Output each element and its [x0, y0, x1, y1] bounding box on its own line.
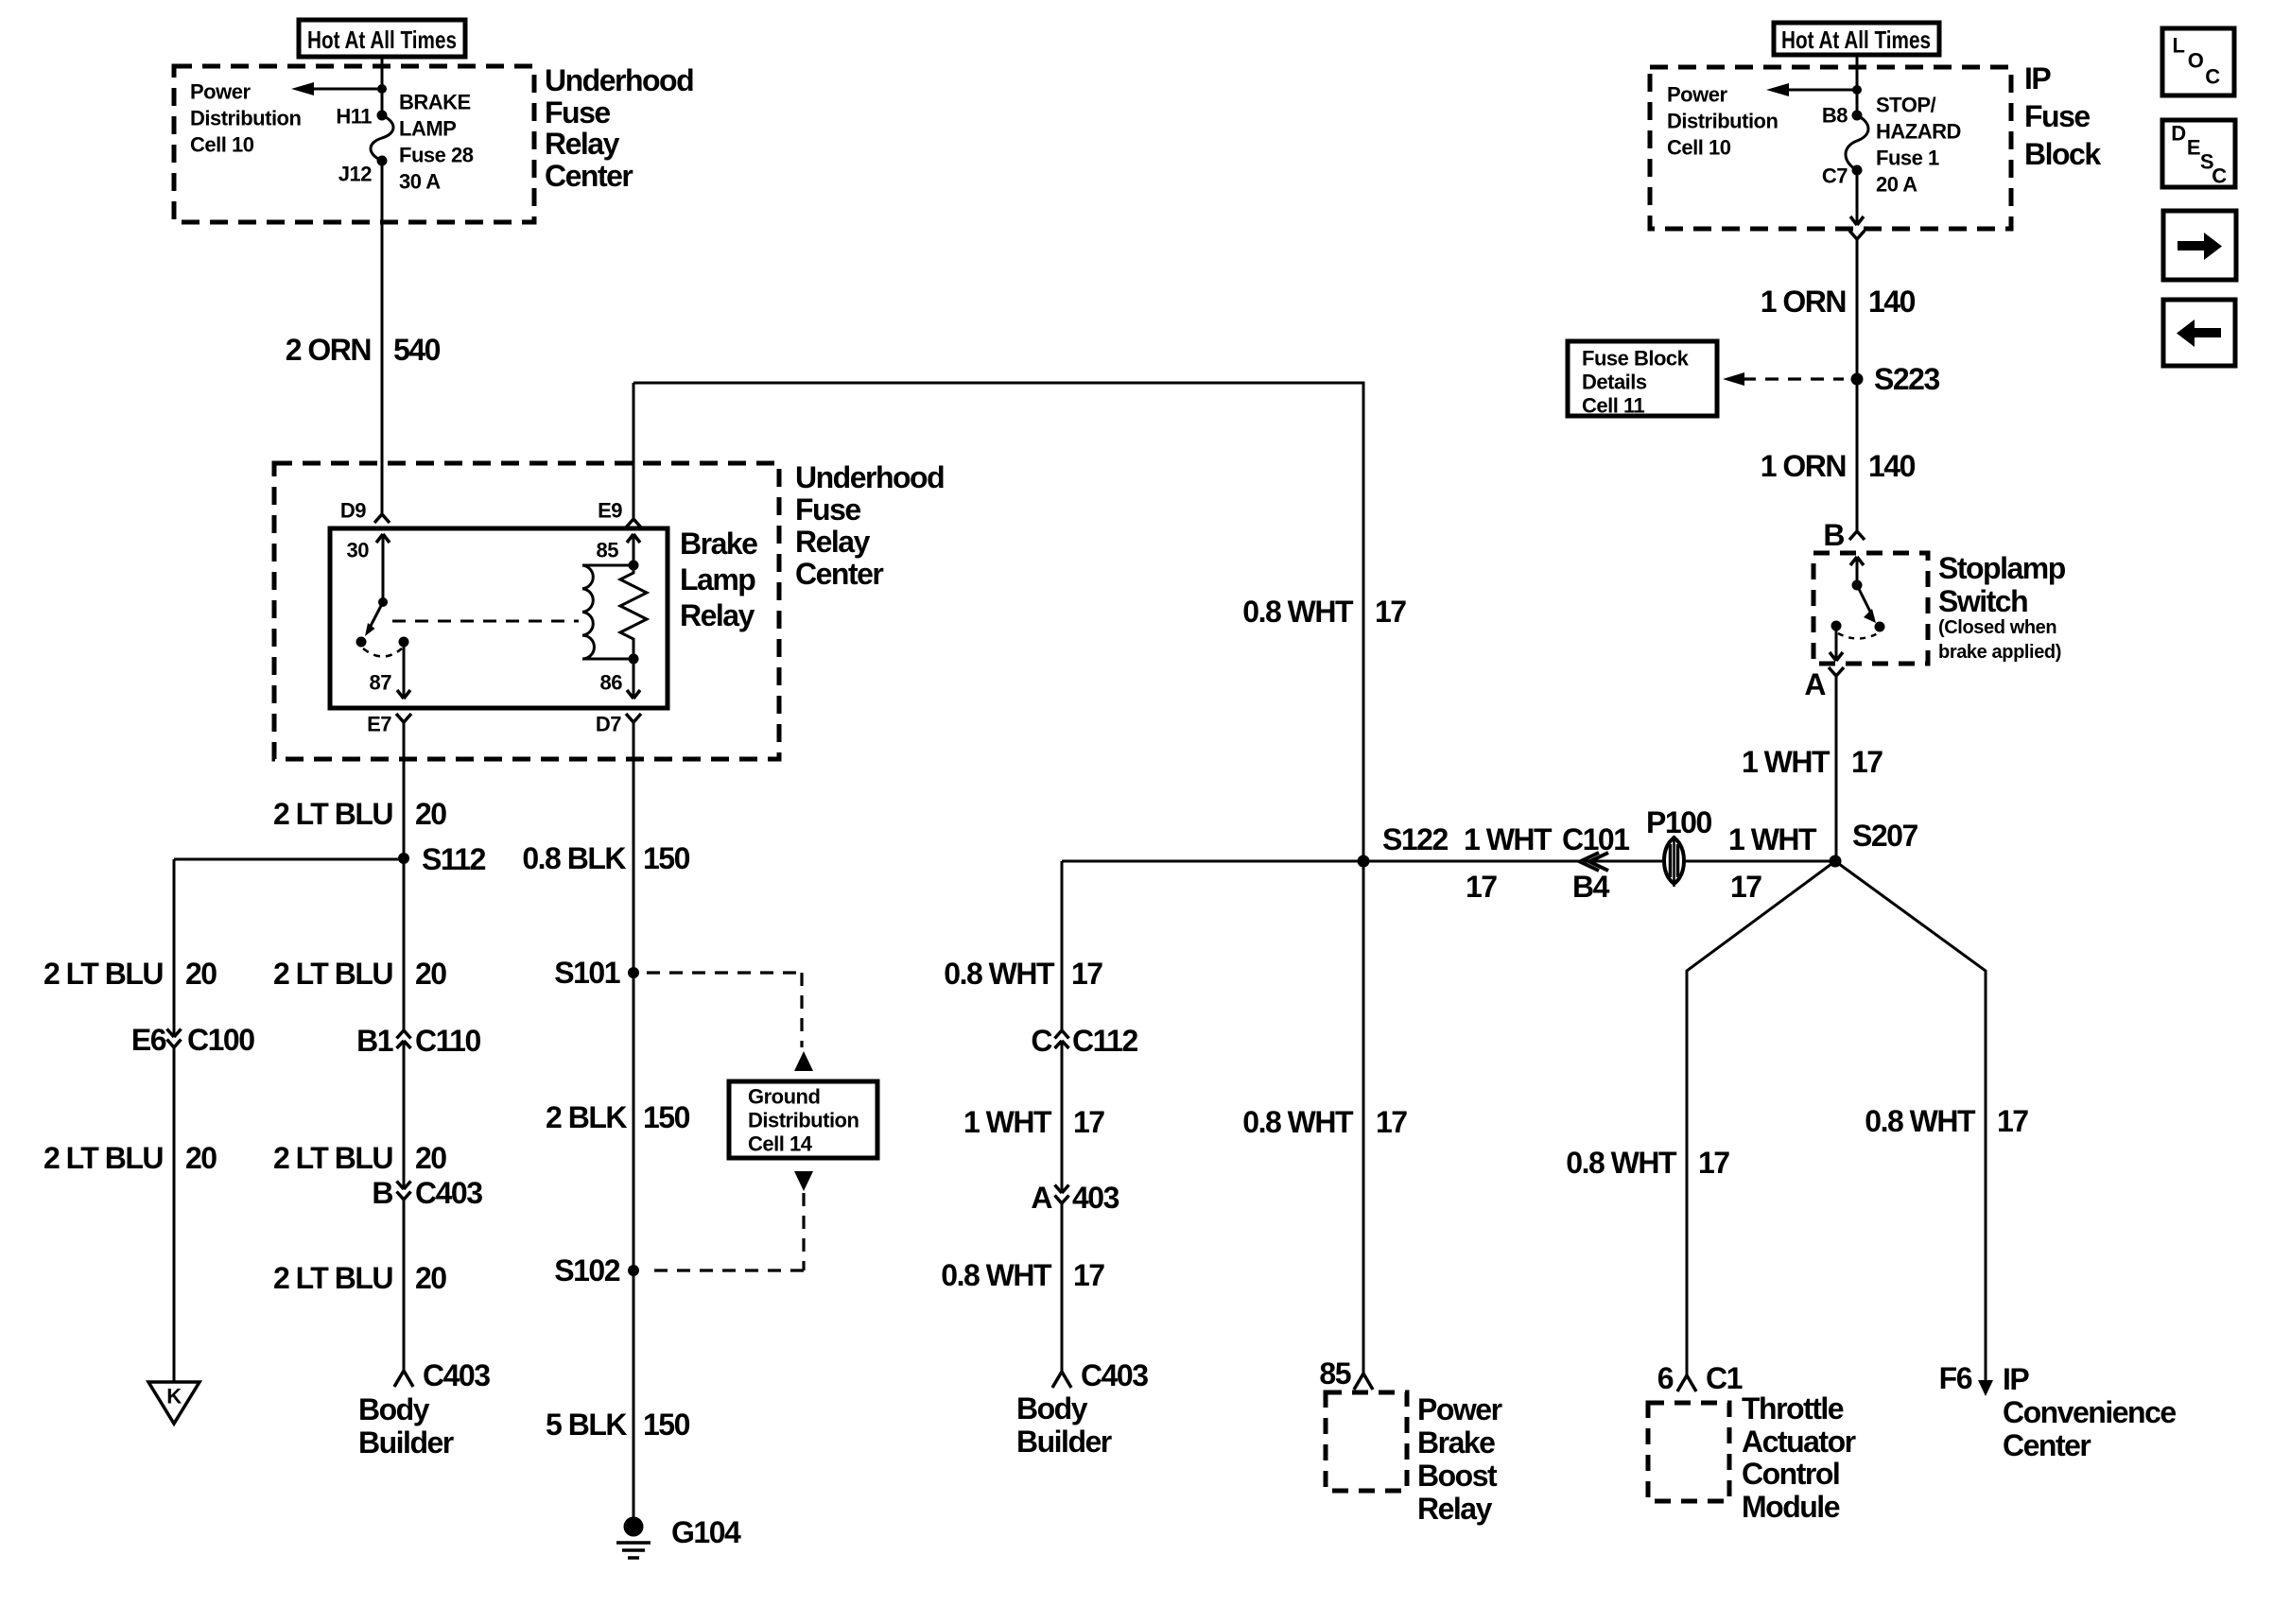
svg-text:17: 17	[1073, 1258, 1104, 1292]
svg-text:Power: Power	[1417, 1392, 1502, 1426]
svg-text:Stoplamp: Stoplamp	[1938, 551, 2066, 585]
svg-text:540: 540	[393, 333, 441, 367]
svg-text:20: 20	[185, 957, 217, 991]
svg-text:Boost: Boost	[1417, 1459, 1498, 1493]
svg-text:B8: B8	[1822, 104, 1848, 128]
svg-text:2 BLK: 2 BLK	[546, 1100, 627, 1134]
svg-text:403: 403	[1072, 1181, 1119, 1215]
svg-text:IP: IP	[2024, 61, 2051, 95]
svg-text:2 LT BLU: 2 LT BLU	[43, 1141, 163, 1175]
svg-text:E: E	[2187, 136, 2200, 160]
svg-text:Lamp: Lamp	[680, 562, 755, 596]
svg-text:Control: Control	[1742, 1457, 1839, 1491]
svg-text:Fuse 28: Fuse 28	[399, 144, 474, 167]
svg-text:2 LT BLU: 2 LT BLU	[273, 957, 392, 991]
svg-text:L: L	[2173, 34, 2185, 58]
svg-text:17: 17	[1997, 1104, 2028, 1138]
svg-text:F6: F6	[1939, 1361, 1972, 1395]
svg-text:H11: H11	[336, 105, 372, 129]
svg-text:C403: C403	[423, 1358, 490, 1392]
svg-text:D9: D9	[340, 499, 366, 523]
svg-text:17: 17	[1073, 1105, 1104, 1139]
svg-text:0.8 WHT: 0.8 WHT	[1242, 1105, 1354, 1139]
svg-text:Fuse: Fuse	[2024, 99, 2090, 133]
svg-text:30: 30	[347, 539, 370, 562]
svg-text:Cell 10: Cell 10	[1667, 136, 1731, 160]
svg-text:B: B	[372, 1176, 392, 1210]
svg-text:Builder: Builder	[358, 1425, 454, 1460]
svg-text:BRAKE: BRAKE	[399, 91, 471, 114]
svg-text:150: 150	[643, 1408, 690, 1442]
svg-text:Center: Center	[795, 557, 883, 591]
svg-text:C: C	[2212, 164, 2227, 188]
svg-text:Cell 10: Cell 10	[190, 133, 254, 157]
svg-text:HAZARD: HAZARD	[1876, 120, 1961, 144]
svg-text:1 ORN: 1 ORN	[1761, 449, 1846, 483]
svg-text:20: 20	[415, 957, 446, 991]
svg-text:S122: S122	[1382, 822, 1448, 856]
svg-text:Distribution: Distribution	[1667, 110, 1778, 133]
svg-text:2 LT BLU: 2 LT BLU	[273, 1141, 392, 1175]
svg-text:150: 150	[643, 841, 690, 875]
svg-text:1 ORN: 1 ORN	[1761, 285, 1846, 319]
svg-text:0.8 WHT: 0.8 WHT	[1242, 595, 1354, 629]
svg-text:Module: Module	[1742, 1490, 1840, 1524]
svg-text:C100: C100	[187, 1023, 254, 1057]
svg-text:A: A	[1031, 1181, 1052, 1215]
svg-text:17: 17	[1851, 745, 1883, 779]
svg-text:Builder: Builder	[1016, 1425, 1112, 1459]
svg-text:30 A: 30 A	[399, 170, 441, 194]
svg-text:J12: J12	[338, 163, 372, 186]
svg-text:0.8 WHT: 0.8 WHT	[941, 1258, 1052, 1292]
svg-text:A: A	[1804, 667, 1826, 701]
svg-text:140: 140	[1868, 285, 1916, 319]
svg-text:Distribution: Distribution	[748, 1109, 859, 1132]
svg-text:Cell 11: Cell 11	[1582, 394, 1644, 418]
svg-text:B4: B4	[1572, 870, 1610, 904]
svg-text:D: D	[2171, 122, 2185, 146]
svg-text:17: 17	[1375, 595, 1406, 629]
svg-text:STOP/: STOP/	[1876, 94, 1936, 117]
svg-text:Cell 14: Cell 14	[748, 1132, 813, 1156]
svg-text:Relay: Relay	[795, 525, 871, 559]
svg-text:brake applied): brake applied)	[1938, 642, 2061, 663]
svg-text:20 A: 20 A	[1876, 173, 1917, 197]
svg-text:Power: Power	[190, 80, 251, 104]
svg-text:Body: Body	[358, 1392, 430, 1426]
svg-text:17: 17	[1466, 870, 1497, 904]
svg-text:1 WHT: 1 WHT	[1742, 745, 1831, 779]
svg-text:C403: C403	[1081, 1358, 1148, 1392]
svg-text:K: K	[166, 1385, 182, 1408]
svg-text:P100: P100	[1646, 805, 1711, 839]
svg-text:O: O	[2188, 49, 2204, 73]
svg-text:20: 20	[415, 797, 446, 831]
svg-text:E9: E9	[598, 499, 622, 523]
svg-text:2 LT BLU: 2 LT BLU	[43, 957, 163, 991]
svg-text:Hot At All Times: Hot At All Times	[307, 26, 457, 54]
svg-text:20: 20	[415, 1261, 446, 1295]
svg-text:IP: IP	[2003, 1362, 2029, 1396]
svg-text:C101: C101	[1562, 822, 1629, 856]
svg-text:S101: S101	[554, 956, 619, 990]
svg-text:Distribution: Distribution	[190, 107, 301, 130]
svg-text:Block: Block	[2024, 137, 2101, 171]
svg-text:0.8 WHT: 0.8 WHT	[944, 957, 1055, 991]
svg-text:Relay: Relay	[545, 127, 620, 161]
svg-text:Fuse Block: Fuse Block	[1582, 347, 1690, 371]
svg-text:Center: Center	[545, 159, 633, 193]
svg-text:20: 20	[415, 1141, 446, 1175]
svg-text:85: 85	[1319, 1356, 1350, 1391]
svg-text:Power: Power	[1667, 83, 1727, 107]
svg-text:17: 17	[1698, 1146, 1729, 1180]
svg-text:E7: E7	[367, 713, 391, 736]
svg-text:17: 17	[1071, 957, 1102, 991]
svg-text:S223: S223	[1874, 362, 1939, 396]
svg-text:1 WHT: 1 WHT	[1464, 822, 1553, 856]
svg-text:0.8 WHT: 0.8 WHT	[1865, 1104, 1976, 1138]
svg-text:D7: D7	[596, 713, 621, 736]
svg-text:Throttle: Throttle	[1742, 1391, 1844, 1425]
svg-text:Convenience: Convenience	[2003, 1395, 2176, 1429]
svg-text:1 WHT: 1 WHT	[1728, 822, 1817, 856]
svg-text:(Closed when: (Closed when	[1938, 617, 2056, 638]
svg-text:Details: Details	[1582, 371, 1647, 394]
svg-text:B1: B1	[356, 1024, 393, 1058]
svg-text:2 LT BLU: 2 LT BLU	[273, 797, 392, 831]
svg-text:20: 20	[185, 1141, 217, 1175]
svg-text:C7: C7	[1822, 164, 1848, 188]
svg-text:2 LT BLU: 2 LT BLU	[273, 1261, 392, 1295]
svg-text:17: 17	[1376, 1105, 1407, 1139]
svg-text:2 ORN: 2 ORN	[286, 333, 371, 367]
svg-text:Underhood: Underhood	[795, 460, 944, 494]
svg-text:S102: S102	[554, 1253, 619, 1287]
svg-text:Underhood: Underhood	[545, 63, 693, 97]
svg-text:Ground: Ground	[748, 1085, 820, 1109]
svg-text:5 BLK: 5 BLK	[546, 1408, 627, 1442]
svg-text:0.8 BLK: 0.8 BLK	[522, 841, 626, 875]
svg-text:0.8 WHT: 0.8 WHT	[1566, 1146, 1677, 1180]
svg-text:C: C	[2205, 65, 2220, 89]
svg-text:150: 150	[643, 1100, 690, 1134]
svg-text:C112: C112	[1072, 1024, 1137, 1058]
svg-text:Fuse: Fuse	[545, 95, 610, 130]
svg-text:Fuse: Fuse	[795, 492, 860, 527]
svg-text:E6: E6	[131, 1023, 166, 1057]
svg-text:Relay: Relay	[1417, 1492, 1493, 1526]
svg-text:C: C	[1031, 1024, 1052, 1058]
svg-text:Brake: Brake	[680, 527, 757, 561]
svg-text:86: 86	[600, 671, 623, 695]
svg-text:C110: C110	[415, 1024, 480, 1058]
svg-text:S207: S207	[1852, 819, 1917, 853]
svg-text:Actuator: Actuator	[1742, 1425, 1856, 1459]
svg-text:Switch: Switch	[1938, 584, 2027, 618]
svg-text:LAMP: LAMP	[399, 117, 456, 141]
svg-text:C403: C403	[415, 1176, 482, 1210]
svg-text:1 WHT: 1 WHT	[963, 1105, 1052, 1139]
svg-text:87: 87	[370, 671, 392, 695]
svg-text:6: 6	[1657, 1361, 1674, 1395]
svg-text:Center: Center	[2003, 1428, 2091, 1462]
svg-text:S112: S112	[422, 842, 486, 876]
svg-text:B: B	[1823, 518, 1844, 552]
svg-text:140: 140	[1868, 449, 1916, 483]
svg-text:Relay: Relay	[680, 598, 755, 632]
svg-text:85: 85	[597, 539, 619, 562]
svg-text:Brake: Brake	[1417, 1425, 1495, 1460]
svg-text:Body: Body	[1016, 1391, 1088, 1425]
svg-text:C1: C1	[1706, 1361, 1743, 1395]
svg-text:Hot At All Times: Hot At All Times	[1781, 26, 1931, 54]
svg-text:G104: G104	[671, 1515, 741, 1549]
svg-text:Fuse 1: Fuse 1	[1876, 147, 1939, 170]
svg-text:17: 17	[1730, 870, 1761, 904]
